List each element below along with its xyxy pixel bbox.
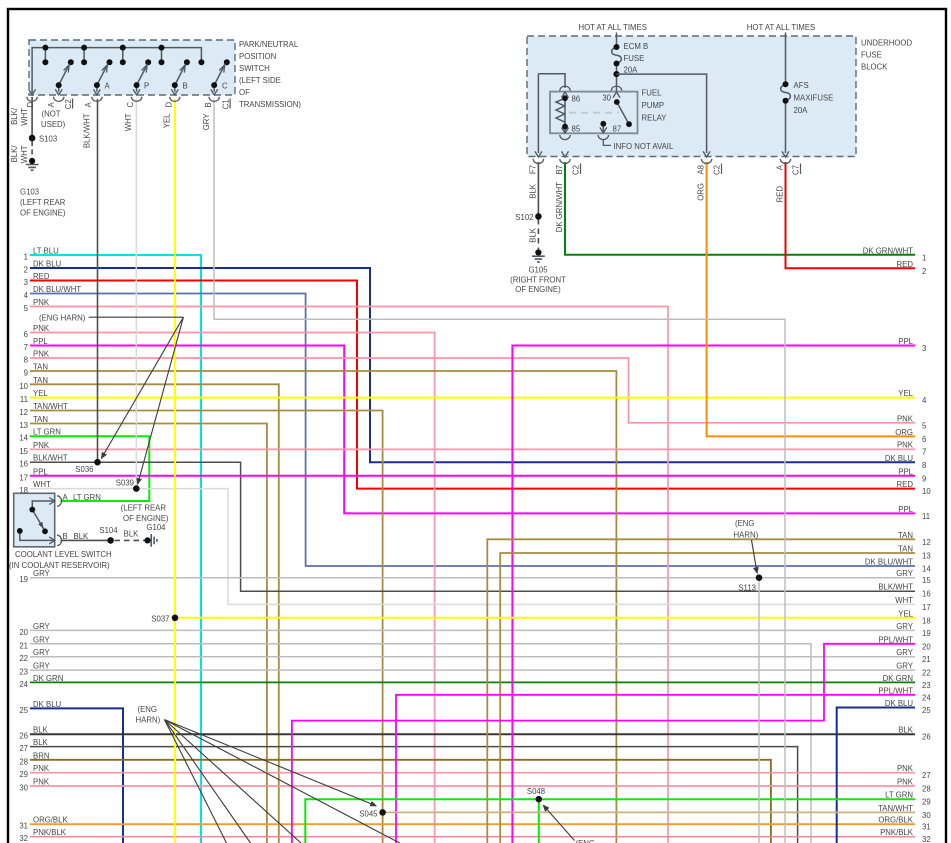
svg-text:UNDERHOOD: UNDERHOOD <box>861 39 912 48</box>
svg-text:6: 6 <box>922 435 926 444</box>
coolant switch pin B wire <box>20 531 54 541</box>
wire 25 DK BLU <box>30 708 123 843</box>
svg-text:22: 22 <box>19 654 28 663</box>
svg-text:20: 20 <box>19 628 28 637</box>
svg-text:PPL: PPL <box>898 505 913 514</box>
svg-text:31: 31 <box>922 823 931 832</box>
svg-text:C2: C2 <box>572 165 581 175</box>
PNP fixed contact 4 <box>161 48 163 63</box>
arrowhead to S045 <box>370 801 378 806</box>
fuel pump relay box U1 <box>550 92 638 134</box>
svg-text:PNK: PNK <box>33 778 50 787</box>
wire GRY below S113 <box>758 578 760 843</box>
AFS maxifuse F2 <box>781 33 791 154</box>
wire 10 TAN <box>30 384 279 843</box>
svg-text:G105: G105 <box>528 266 548 275</box>
wire 1 LT BLU <box>30 255 201 843</box>
svg-text:RED: RED <box>897 480 914 489</box>
svg-text:18: 18 <box>922 616 931 625</box>
PNP fixed contact 2 <box>83 48 85 63</box>
svg-text:C: C <box>126 102 135 108</box>
svg-text:OF ENGINE): OF ENGINE) <box>515 285 561 294</box>
svg-text:21: 21 <box>922 655 931 664</box>
svg-text:BLOCK: BLOCK <box>861 63 888 72</box>
svg-text:DK BLU/WHT: DK BLU/WHT <box>865 558 913 567</box>
svg-text:14: 14 <box>922 565 931 574</box>
svg-text:29: 29 <box>19 770 28 779</box>
wire 15 PNK <box>30 448 915 450</box>
ground G105 <box>535 249 541 255</box>
svg-text:TAN: TAN <box>898 545 913 554</box>
wire 8 PNK <box>30 358 915 423</box>
svg-text:PPL/WHT: PPL/WHT <box>878 635 913 644</box>
svg-text:(ENG HARN): (ENG HARN) <box>39 314 86 323</box>
coolant switch pin bumps <box>57 496 62 546</box>
svg-text:RED: RED <box>897 260 914 269</box>
splice S113 <box>756 574 763 581</box>
svg-text:BLK: BLK <box>529 183 538 199</box>
svg-text:GRY: GRY <box>33 662 51 671</box>
svg-text:23: 23 <box>19 668 28 677</box>
wire 3 RED <box>30 281 915 489</box>
wire GRY from PNP pin B <box>214 99 785 843</box>
svg-text:(LEFT SIDE: (LEFT SIDE <box>239 76 281 85</box>
svg-text:1: 1 <box>922 254 926 263</box>
wire 19 GRY with S113 drop <box>30 577 915 579</box>
splice S104 <box>107 537 114 544</box>
svg-text:LT GRN: LT GRN <box>885 791 913 800</box>
svg-text:BLK: BLK <box>33 738 49 747</box>
svg-text:32: 32 <box>19 834 28 843</box>
svg-text:19: 19 <box>19 575 28 584</box>
splice S036 <box>94 459 101 466</box>
svg-text:16: 16 <box>922 590 931 599</box>
svg-text:TAN: TAN <box>33 363 48 372</box>
svg-text:DK BLU: DK BLU <box>885 454 914 463</box>
svg-text:GRY: GRY <box>33 622 51 631</box>
svg-text:BLK: BLK <box>33 726 49 735</box>
svg-text:B: B <box>204 102 213 107</box>
wire BLK dashed S102 to G105 <box>537 219 539 250</box>
svg-text:COOLANT LEVEL SWITCH: COOLANT LEVEL SWITCH <box>15 550 112 559</box>
svg-text:WHT: WHT <box>895 596 913 605</box>
svg-text:17: 17 <box>19 473 28 482</box>
svg-text:27: 27 <box>19 744 28 753</box>
svg-text:4: 4 <box>24 291 29 300</box>
svg-text:A: A <box>47 102 56 108</box>
svg-text:5: 5 <box>24 304 29 313</box>
left wire numbers <box>19 253 28 843</box>
relay dots <box>562 95 568 101</box>
svg-text:GRY: GRY <box>33 569 51 578</box>
svg-text:2: 2 <box>24 266 28 275</box>
wire 29 PNK <box>30 772 915 774</box>
pin 87 info stub <box>603 140 611 146</box>
svg-text:S036: S036 <box>75 465 93 474</box>
svg-text:HARN): HARN) <box>136 716 161 725</box>
svg-text:GRY: GRY <box>896 622 914 631</box>
park/neutral position switch internals <box>32 48 225 93</box>
fuel pump relay internals <box>556 88 629 134</box>
svg-text:WHT: WHT <box>20 145 29 163</box>
wire 6 PNK <box>30 333 435 843</box>
svg-text:TRANSMISSION): TRANSMISSION) <box>239 100 301 109</box>
svg-text:(ENG: (ENG <box>735 519 755 528</box>
svg-text:7: 7 <box>24 343 28 352</box>
wire 4 DK BLU/WHT <box>30 294 915 567</box>
svg-text:YEL: YEL <box>163 113 172 128</box>
svg-text:BLK: BLK <box>898 726 914 735</box>
svg-text:FUSE: FUSE <box>624 54 645 63</box>
svg-text:PNK: PNK <box>897 440 914 449</box>
svg-text:C1: C1 <box>221 99 230 109</box>
svg-text:GRY: GRY <box>896 662 914 671</box>
svg-text:D: D <box>165 102 174 108</box>
svg-text:PNK: PNK <box>33 764 50 773</box>
svg-text:C2: C2 <box>64 99 73 109</box>
svg-text:DK GRN: DK GRN <box>33 674 63 683</box>
wire 9 TAN <box>30 371 616 843</box>
svg-text:B7: B7 <box>555 165 564 175</box>
svg-text:HOT AT ALL TIMES: HOT AT ALL TIMES <box>747 23 815 32</box>
svg-text:TAN/WHT: TAN/WHT <box>33 402 68 411</box>
wire YEL from PNP pin D through S037 <box>174 99 176 843</box>
svg-text:5: 5 <box>922 421 927 430</box>
svg-text:BLK: BLK <box>529 227 538 243</box>
connector C1 bar <box>229 99 231 109</box>
svg-text:25: 25 <box>922 706 931 715</box>
svg-text:A: A <box>84 102 93 108</box>
splice S103 <box>29 135 36 142</box>
wire right 13 TAN <box>500 553 915 843</box>
svg-text:2: 2 <box>922 267 926 276</box>
svg-text:6: 6 <box>24 330 28 339</box>
svg-text:9: 9 <box>24 369 28 378</box>
svg-text:ORG: ORG <box>895 428 913 437</box>
svg-text:17: 17 <box>922 603 931 612</box>
svg-text:30: 30 <box>19 784 28 793</box>
fuse block connector bumps <box>533 159 791 164</box>
svg-text:24: 24 <box>19 680 28 689</box>
wire 17 PPL <box>30 475 915 477</box>
svg-text:21: 21 <box>19 641 28 650</box>
connector C2 bar <box>72 99 74 109</box>
PNP switch arm 1 <box>59 65 69 92</box>
svg-text:1: 1 <box>24 253 28 262</box>
svg-text:TAN: TAN <box>33 415 48 424</box>
wire 7 PPL <box>30 346 915 514</box>
underhood fuse block box <box>527 36 856 157</box>
svg-text:10: 10 <box>19 382 28 391</box>
right wire labels <box>863 247 914 838</box>
svg-text:25: 25 <box>19 706 28 715</box>
coolant switch dots <box>29 507 35 513</box>
svg-text:3: 3 <box>922 344 926 353</box>
PNP switch arm 5 (C) <box>214 65 225 92</box>
dashed BLK wire S104 to G104 <box>115 539 146 541</box>
ECM B fuse F1 <box>612 33 622 88</box>
svg-text:TAN/WHT: TAN/WHT <box>878 804 913 813</box>
wire right 2 RED from AFS maxifuse pin A <box>786 162 916 268</box>
svg-text:HARN): HARN) <box>734 531 759 540</box>
PNP switch arm 3 (P) <box>137 65 148 92</box>
wire right 1 DK GRN/WHT from relay pin 85 B7 <box>565 162 915 255</box>
relay pin 87 stem <box>602 124 604 133</box>
svg-text:D: D <box>26 102 35 108</box>
svg-text:SWITCH: SWITCH <box>239 64 270 73</box>
relay pin bumps <box>560 86 622 140</box>
svg-text:BLK/WHT: BLK/WHT <box>878 583 913 592</box>
svg-text:G103: G103 <box>20 188 39 197</box>
svg-text:FUSE: FUSE <box>861 51 882 60</box>
wire right 25 DK BLU <box>837 708 915 843</box>
svg-text:PNK: PNK <box>33 350 50 359</box>
wire right 12 TAN <box>487 539 915 843</box>
svg-text:11: 11 <box>20 395 28 404</box>
coolant switch pin arrows <box>49 498 55 544</box>
wire WHT from PNP pin C to S039 <box>135 99 137 489</box>
svg-text:86: 86 <box>572 95 581 104</box>
svg-text:WHT: WHT <box>124 113 133 131</box>
svg-text:8: 8 <box>24 356 28 365</box>
svg-text:PNK/BLK: PNK/BLK <box>33 828 67 837</box>
svg-text:GRY: GRY <box>33 648 51 657</box>
svg-text:ORG/BLK: ORG/BLK <box>878 816 913 825</box>
svg-text:PNK/BLK: PNK/BLK <box>880 828 914 837</box>
wire 28 BRN <box>30 760 771 843</box>
svg-text:(LEFT REAR: (LEFT REAR <box>20 198 66 207</box>
svg-text:GRY: GRY <box>896 648 914 657</box>
coolant switch arm arrowhead <box>38 522 43 528</box>
svg-text:85: 85 <box>572 125 581 134</box>
svg-text:MAXIFUSE: MAXIFUSE <box>794 94 834 103</box>
svg-text:(ENG: (ENG <box>138 705 158 714</box>
svg-text:DK GRN: DK GRN <box>883 674 913 683</box>
svg-text:PUMP: PUMP <box>642 101 665 110</box>
svg-text:PNK: PNK <box>33 324 50 333</box>
relay pin arrows <box>562 92 621 133</box>
splice S037 <box>172 615 179 622</box>
arrowhead to S039 <box>136 478 142 486</box>
svg-text:BLK/WHT: BLK/WHT <box>83 113 92 148</box>
svg-text:GRY: GRY <box>33 635 51 644</box>
svg-text:13: 13 <box>19 421 28 430</box>
svg-text:C: C <box>222 82 228 91</box>
svg-text:OF ENGINE): OF ENGINE) <box>123 514 169 523</box>
wire right 24 PPL/WHT <box>396 695 915 843</box>
relay coil <box>556 98 565 126</box>
wire 30 PNK <box>30 785 915 787</box>
svg-text:18: 18 <box>19 486 28 495</box>
wire 21 GRY <box>30 644 811 843</box>
wire 22 GRY <box>30 656 915 658</box>
svg-text:GRY: GRY <box>202 113 211 131</box>
coolant level switch box <box>14 493 55 547</box>
wire 5 PNK <box>30 307 668 843</box>
svg-text:15: 15 <box>922 576 931 585</box>
svg-text:31: 31 <box>19 822 28 831</box>
svg-text:USED): USED) <box>41 120 66 129</box>
wire right 20 PPL/WHT <box>292 644 915 843</box>
svg-text:28: 28 <box>19 757 28 766</box>
svg-text:RED: RED <box>33 272 50 281</box>
svg-text:OF ENGINE): OF ENGINE) <box>20 208 66 217</box>
relay pin 30 drop <box>616 88 618 92</box>
svg-text:F7: F7 <box>529 165 538 174</box>
svg-text:(LEFT REAR: (LEFT REAR <box>121 504 167 513</box>
wire BLK from fuse block F7 to S102 <box>537 162 539 216</box>
wire 24 DK GRN <box>30 681 915 683</box>
svg-text:LT BLU: LT BLU <box>33 247 59 256</box>
svg-text:DK BLU: DK BLU <box>33 700 62 709</box>
wire 27 BLK <box>30 747 798 843</box>
svg-text:OF: OF <box>239 88 250 97</box>
svg-text:A: A <box>63 493 69 502</box>
svg-text:INFO NOT AVAIL: INFO NOT AVAIL <box>614 142 674 151</box>
svg-text:(ENG: (ENG <box>576 839 596 843</box>
svg-text:S039: S039 <box>116 478 134 487</box>
svg-text:26: 26 <box>922 733 931 742</box>
svg-text:14: 14 <box>19 434 28 443</box>
wire right 30 TAN/WHT from S045 <box>383 811 915 813</box>
wire 11 YEL <box>30 397 915 399</box>
arrowhead to S048 <box>543 805 550 812</box>
svg-text:PNK: PNK <box>33 441 50 450</box>
svg-text:PPL: PPL <box>33 337 48 346</box>
PNP contact dots <box>42 45 229 89</box>
wire BLK/WHT dashed S103 to G103 <box>31 141 33 159</box>
svg-text:HOT AT ALL TIMES: HOT AT ALL TIMES <box>578 23 646 32</box>
svg-text:9: 9 <box>922 474 926 483</box>
relay pin 85 stem <box>564 127 566 133</box>
svg-text:S104: S104 <box>99 526 118 535</box>
svg-text:4: 4 <box>922 396 927 405</box>
svg-text:PPL: PPL <box>898 337 913 346</box>
svg-text:27: 27 <box>922 771 931 780</box>
wire 20 GRY <box>30 629 915 631</box>
svg-text:RED: RED <box>776 186 785 203</box>
svg-text:P: P <box>144 82 149 91</box>
svg-text:28: 28 <box>922 785 931 794</box>
park/neutral position switch box <box>29 40 235 95</box>
svg-text:YEL: YEL <box>33 389 48 398</box>
splice S039 <box>133 485 140 492</box>
svg-text:3: 3 <box>24 278 28 287</box>
wire BLK/WHT from PNP pin A to S036 <box>97 99 99 462</box>
svg-text:DK BLU: DK BLU <box>885 699 914 708</box>
arrowhead to S113 <box>753 567 759 575</box>
fuse block bus to A8 <box>617 74 707 153</box>
svg-text:DK BLU/WHT: DK BLU/WHT <box>33 285 81 294</box>
svg-text:20: 20 <box>922 642 931 651</box>
svg-text:PPL: PPL <box>33 467 48 476</box>
svg-text:A: A <box>105 82 111 91</box>
wire 31 ORG/BLK <box>30 823 915 825</box>
svg-text:PNK: PNK <box>897 414 914 423</box>
wire 13 TAN <box>30 424 267 843</box>
svg-text:BLK/: BLK/ <box>10 107 19 125</box>
svg-text:S037: S037 <box>151 614 169 623</box>
svg-text:19: 19 <box>922 629 931 638</box>
svg-text:BLK/: BLK/ <box>10 145 19 163</box>
wire 2 DK BLU <box>30 268 915 462</box>
coolant level switch internals <box>20 501 54 540</box>
svg-text:AFS: AFS <box>794 81 809 90</box>
svg-text:30: 30 <box>602 94 611 103</box>
svg-text:C2: C2 <box>713 165 722 175</box>
svg-text:12: 12 <box>922 538 931 547</box>
svg-text:YEL: YEL <box>898 609 913 618</box>
wire 23 GRY <box>30 669 915 671</box>
wire 26 BLK <box>30 733 915 735</box>
svg-text:POSITION: POSITION <box>239 52 276 61</box>
coolant switch pin A wire <box>32 501 54 510</box>
svg-text:PARK/NEUTRAL: PARK/NEUTRAL <box>239 40 299 49</box>
coolant switch BLK wire to S104 <box>61 539 111 541</box>
svg-text:S102: S102 <box>515 213 533 222</box>
PNP fixed contact 1 <box>44 48 46 63</box>
svg-text:DK GRN/WHT: DK GRN/WHT <box>863 247 913 256</box>
svg-text:(NOT: (NOT <box>42 110 61 119</box>
svg-text:TAN: TAN <box>898 531 913 540</box>
wire right 6 ORG from fuse block A8 <box>707 162 915 436</box>
wire 18 WHT <box>30 489 915 605</box>
PNP switch arm 2 (A) <box>97 65 108 92</box>
relay switch arm <box>617 102 629 124</box>
svg-text:C7: C7 <box>792 165 801 175</box>
svg-text:11: 11 <box>922 512 930 521</box>
svg-text:16: 16 <box>19 460 28 469</box>
svg-text:ORG/BLK: ORG/BLK <box>33 816 68 825</box>
wire right 3 PPL <box>512 346 915 843</box>
svg-text:PNK: PNK <box>33 298 50 307</box>
svg-text:TAN: TAN <box>33 376 48 385</box>
svg-text:26: 26 <box>19 732 28 741</box>
svg-text:ORG: ORG <box>697 183 706 201</box>
svg-text:PPL/WHT: PPL/WHT <box>878 686 913 695</box>
svg-text:S113: S113 <box>738 584 756 593</box>
svg-text:20A: 20A <box>794 106 809 115</box>
ground G103 <box>26 165 39 171</box>
svg-text:ECM B: ECM B <box>624 42 649 51</box>
wire right 29 LT GRN with splice S048 <box>305 799 915 843</box>
svg-text:FUEL: FUEL <box>642 89 663 98</box>
svg-text:8: 8 <box>922 461 926 470</box>
svg-text:BRN: BRN <box>33 751 49 760</box>
svg-text:22: 22 <box>922 669 931 678</box>
svg-text:13: 13 <box>922 552 931 561</box>
svg-text:BLK: BLK <box>124 530 140 539</box>
svg-text:87: 87 <box>613 125 622 134</box>
svg-text:WHT: WHT <box>20 108 29 126</box>
svg-text:29: 29 <box>922 798 931 807</box>
svg-text:G104: G104 <box>146 523 166 532</box>
relay mech link dashed <box>569 112 619 114</box>
splice S045 <box>379 809 386 816</box>
svg-text:WHT: WHT <box>33 480 51 489</box>
svg-text:15: 15 <box>19 447 28 456</box>
svg-text:20A: 20A <box>624 66 639 75</box>
wire 32 PNK/BLK <box>30 836 915 838</box>
svg-text:DK GRN/WHT: DK GRN/WHT <box>555 182 564 232</box>
splice S102 <box>535 213 542 220</box>
fuse block bottom arrows <box>535 151 789 157</box>
svg-text:S048: S048 <box>527 787 545 796</box>
PNP arm arrowheads <box>64 65 225 73</box>
svg-text:YEL: YEL <box>898 389 913 398</box>
PNP bus wire <box>32 48 201 93</box>
svg-text:PNK: PNK <box>897 778 914 787</box>
